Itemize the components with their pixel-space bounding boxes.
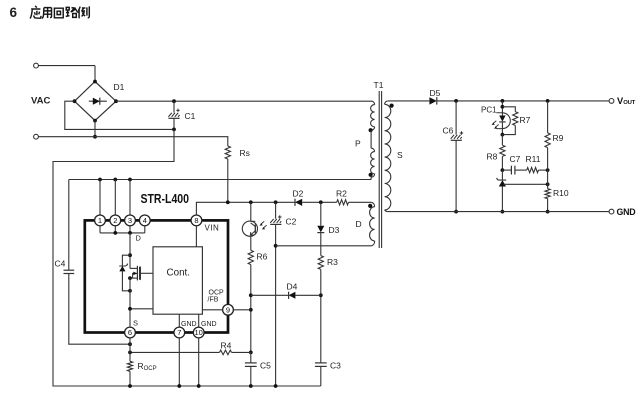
svg-text:C3: C3	[330, 361, 341, 371]
zener clamp diode (internal)	[119, 255, 132, 292]
capacitor C5	[245, 352, 271, 388]
svg-text:T1: T1	[374, 80, 384, 90]
pin 2	[110, 215, 121, 226]
wire D5 to Vout	[437, 100, 609, 102]
svg-text:C7: C7	[510, 154, 521, 164]
wire pin9 to FB node	[233, 309, 250, 311]
wire zener node to divider	[504, 183, 548, 185]
transistor Q1 MOSFET (internal)	[128, 266, 153, 281]
node PC1 branch / VIN junction	[249, 200, 253, 204]
wire pin stubs to drain bus	[99, 180, 101, 216]
pin 1	[95, 215, 106, 226]
svg-text:VIN: VIN	[205, 224, 220, 233]
node C2 junction	[274, 200, 278, 204]
svg-text:R4: R4	[221, 341, 232, 351]
svg-text:D3: D3	[329, 225, 340, 235]
node VAC input terminal (top)	[34, 63, 39, 68]
capacitor C7	[502, 154, 520, 175]
diode D5	[429, 88, 440, 105]
svg-text:Cont.: Cont.	[167, 267, 191, 278]
pin 6	[125, 327, 136, 338]
transformer secondary winding S	[385, 101, 403, 212]
wire R6 to FB node / C5	[250, 265, 252, 353]
svg-text:C6: C6	[443, 126, 454, 136]
wire drain bus (pins 1-3 to primary bottom)	[69, 179, 371, 181]
svg-text:GND: GND	[201, 321, 217, 328]
svg-text:R2: R2	[336, 189, 347, 199]
svg-text:/FB: /FB	[208, 296, 219, 303]
wire	[38, 65, 95, 67]
wire source down to pin 6	[129, 278, 131, 327]
svg-text:GND: GND	[617, 207, 636, 217]
svg-text:C2: C2	[286, 217, 297, 227]
wire D winding return	[276, 245, 372, 247]
op-amp U1 IC outline STR-L400	[85, 220, 228, 332]
resistor R8	[487, 135, 506, 172]
svg-text:STR-L400: STR-L400	[141, 191, 190, 206]
bridge rectifier D1	[73, 80, 125, 123]
transformer primary winding P upper	[355, 101, 375, 148]
resistor R2	[337, 200, 349, 205]
wire pin8 riser to VIN rail	[196, 202, 295, 215]
pin 3	[125, 215, 136, 226]
svg-text:C5: C5	[260, 361, 271, 371]
zener diode (secondary reference)	[497, 170, 507, 213]
wire pin10 to ground rail	[198, 338, 200, 386]
optocoupler PC1 LED side	[481, 101, 510, 137]
resistor R3	[320, 233, 322, 256]
capacitor C4	[55, 259, 75, 274]
pin 7	[174, 327, 185, 338]
svg-text:6: 6	[128, 328, 132, 337]
capacitor C6 (electrolytic)	[443, 101, 464, 214]
wire controller to pin 9	[202, 309, 222, 311]
svg-text:R8: R8	[487, 152, 498, 162]
svg-text:D2: D2	[293, 189, 304, 199]
controller block Cont.	[153, 247, 202, 314]
wire Rs to VIN line	[227, 159, 229, 202]
svg-text:S: S	[397, 150, 403, 160]
wire bridge plus output to transformer	[116, 100, 372, 102]
svg-text:GND: GND	[181, 321, 197, 328]
pin 8	[191, 215, 202, 226]
svg-text:D1: D1	[114, 82, 125, 92]
node GND terminal	[609, 209, 614, 214]
svg-text:R3: R3	[327, 257, 338, 267]
svg-text:R7: R7	[520, 115, 531, 125]
wire bus left end down through C4	[68, 180, 70, 271]
svg-text:C4: C4	[55, 259, 66, 269]
capacitor C3	[274, 361, 341, 388]
svg-text:D4: D4	[287, 282, 298, 292]
wire D2 to R2	[302, 201, 337, 203]
transformer auxiliary winding D	[356, 202, 375, 246]
optocoupler PC1 phototransistor	[242, 202, 266, 250]
svg-text:8: 8	[194, 216, 198, 225]
svg-text:1: 1	[98, 216, 102, 225]
svg-text:3: 3	[128, 216, 132, 225]
capacitor C2 (electrolytic)	[270, 202, 296, 386]
wire bottom AC rail to Rs	[38, 137, 227, 146]
svg-text:6: 6	[10, 5, 18, 20]
svg-text:P: P	[355, 139, 361, 149]
wire pin7 stub	[178, 314, 180, 327]
capacitor C1 (electrolytic)	[168, 99, 195, 131]
svg-text:R9: R9	[553, 133, 564, 143]
resistor R10	[545, 170, 569, 213]
svg-text:R10: R10	[553, 188, 569, 198]
wire internal drain vertical	[129, 233, 131, 269]
resistor Rs	[225, 146, 230, 159]
wire pin8 stub	[195, 226, 197, 247]
svg-text:C1: C1	[185, 111, 196, 121]
transformer primary winding P lower	[369, 148, 375, 179]
svg-text:D5: D5	[430, 88, 441, 98]
diode D4	[251, 282, 321, 299]
pin 10	[193, 327, 204, 338]
wire bridge minus output	[65, 101, 174, 129]
node VAC input terminal (bottom)	[34, 134, 39, 139]
diode D3 (zener)	[317, 202, 339, 235]
svg-text:9: 9	[226, 305, 230, 314]
node Vout terminal	[609, 99, 614, 104]
pin 9	[223, 304, 234, 315]
svg-text:PC1: PC1	[481, 106, 497, 115]
wire secondary top rail	[388, 100, 430, 102]
pin 4	[139, 215, 150, 226]
svg-text:2: 2	[113, 216, 117, 225]
svg-text:7: 7	[177, 328, 181, 337]
wire internal drain bus	[100, 232, 145, 234]
resistor R11	[515, 154, 550, 173]
title block: 6 OuYou KaiRo Rei (application circuit example)	[10, 5, 90, 20]
svg-text:10: 10	[195, 328, 203, 337]
wire pin7 to ground rail	[178, 338, 180, 386]
svg-text:S: S	[133, 319, 138, 328]
wire secondary ground rail	[388, 211, 609, 213]
resistor R4	[128, 341, 251, 355]
wire R2 to D winding	[349, 201, 372, 203]
wire bridge AC bottom	[94, 121, 96, 137]
svg-text:R6: R6	[257, 252, 268, 262]
transformer T1	[374, 80, 384, 248]
resistor R6	[248, 250, 253, 264]
wire pin10 stub	[198, 314, 200, 327]
svg-text:4: 4	[143, 216, 147, 225]
svg-text:R11: R11	[526, 154, 541, 164]
svg-text:VAC: VAC	[31, 96, 50, 107]
resistor R7	[502, 107, 530, 135]
svg-text:Rs: Rs	[240, 148, 250, 158]
svg-text:D: D	[136, 234, 142, 243]
svg-text:D: D	[356, 219, 362, 229]
wire winding jog	[370, 130, 372, 148]
wire source sense to controller	[130, 308, 153, 310]
wire C1/minus node down-left to primary ground	[53, 129, 321, 386]
resistor Rocp	[127, 338, 156, 388]
resistor R9	[545, 101, 564, 170]
wire C4 to source node	[69, 274, 130, 345]
diode D2	[293, 189, 304, 206]
wire R3 down through C3 node	[320, 269, 322, 362]
